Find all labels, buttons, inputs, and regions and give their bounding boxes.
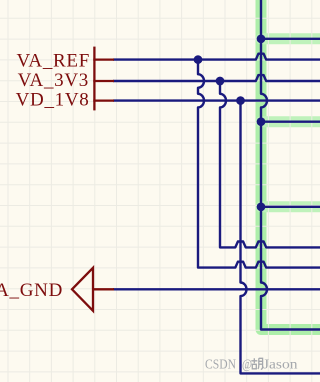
- highlighted branch 3: [261, 201, 320, 212]
- highlighted branch 2: [261, 116, 320, 127]
- net highlight: green band on highlighted net: [261, 0, 320, 330]
- wire vertical from VA_3V3 junction: [220, 81, 320, 247]
- junction highlighted branch 3: [257, 202, 266, 211]
- svg-text:VA_GND: VA_GND: [0, 280, 63, 301]
- svg-text:VA_REF: VA_REF: [16, 50, 90, 71]
- wire vertical from VD_1V8 junction: [241, 101, 320, 374]
- watermark CJK glyph hu: [251, 358, 262, 369]
- wire VA_GND horizontal: [113, 288, 320, 290]
- svg-text:Jason: Jason: [263, 358, 298, 373]
- harness entry stub VA_3V3: [93, 80, 114, 82]
- port VA_GND triangle: [72, 268, 93, 311]
- junction on VA_REF wire: [194, 55, 203, 64]
- svg-text:CSDN: CSDN: [205, 358, 236, 373]
- junction highlighted branch 2: [257, 117, 266, 126]
- junction on VA_3V3 wire: [216, 77, 225, 86]
- wire vertical from VA_REF junction: [198, 60, 320, 268]
- highlighted vertical net with bottom corner: [261, 0, 320, 330]
- harness entry stub VA_REF: [93, 58, 114, 60]
- svg-text:@: @: [242, 358, 252, 373]
- port VA_GND stub: [93, 288, 114, 290]
- wire VA_REF horizontal: [113, 54, 320, 60]
- harness connector edge: [93, 47, 95, 111]
- watermark CSDN @huJason: [205, 358, 298, 373]
- wire VA_3V3 horizontal: [113, 75, 320, 81]
- svg-text:VA_3V3: VA_3V3: [18, 70, 89, 91]
- junction highlighted branch 1: [257, 34, 266, 43]
- wire highlighted branch 2: [261, 120, 320, 122]
- wire highlighted vertical net: [261, 0, 320, 330]
- wire VD_1V8 horizontal: [113, 99, 320, 101]
- harness entry stub VD_1V8: [93, 99, 114, 101]
- wire highlighted branch 3: [261, 206, 320, 208]
- highlighted branch 1: [261, 33, 320, 44]
- svg-text:VD_1V8: VD_1V8: [16, 90, 90, 111]
- wire highlighted branch 1: [261, 38, 320, 40]
- junction on VD_1V8 wire: [236, 96, 245, 105]
